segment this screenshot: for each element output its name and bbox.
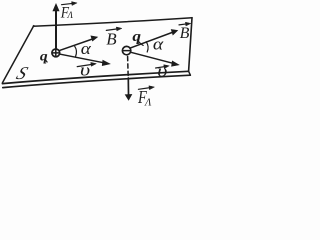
svg-text:α: α xyxy=(81,39,92,58)
svg-text:B: B xyxy=(180,25,190,42)
svg-text:υ: υ xyxy=(80,61,90,80)
svg-text:Λ: Λ xyxy=(144,98,152,107)
svg-text:υ: υ xyxy=(157,62,167,81)
svg-text:α: α xyxy=(153,35,164,54)
svg-text:Λ: Λ xyxy=(67,10,74,20)
svg-text:B: B xyxy=(106,30,117,49)
